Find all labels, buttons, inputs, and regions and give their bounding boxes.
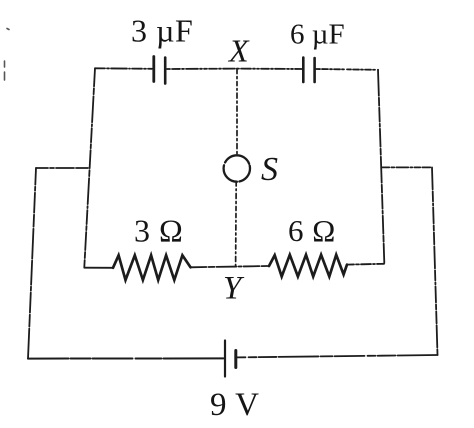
wire outer-right vertical [432,167,438,355]
wire switch down to node Y [235,182,238,266]
wire between resistors through node Y [191,266,270,267]
wire bottom left segment [28,357,224,359]
wire R2 to bottom-right inner corner [347,263,384,266]
battery tall plate [224,341,226,377]
svg-text:Y: Y [223,271,245,307]
wire top-left segment [95,67,152,70]
svg-text:9 V: 9 V [210,387,260,423]
svg-text:S: S [261,151,278,188]
wire C1 to node X [167,68,237,70]
wire outer-left vertical [28,168,36,359]
wire inner-bottom left stub [84,267,113,269]
svg-text:6 µF: 6 µF [290,19,345,51]
resistor R1 (3 ohm) [113,255,191,280]
wire bottom right segment [237,355,438,357]
wire inner-right vertical [378,70,384,263]
svg-text:6 Ω: 6 Ω [288,213,336,248]
svg-text:3 Ω: 3 Ω [134,213,183,249]
svg-text:X: X [227,33,250,69]
wire node X to C2 [237,68,302,70]
scan artifact marks left edge [5,29,10,81]
wire inner-left vertical [84,68,95,267]
wire left connector [36,167,90,169]
wire right connector [381,166,432,168]
battery short plate [234,351,237,368]
switch S circle [224,155,250,181]
resistor R2 (6 ohm) [269,255,347,277]
capacitor C2 right plate (6 uF) [313,58,316,82]
capacitor C2 left plate (6 uF) [302,58,305,83]
wire node X down to switch [236,69,238,155]
capacitor C1 left plate (3 uF) [152,57,155,82]
capacitor C1 right plate (3 uF) [164,58,167,84]
svg-text:3 µF: 3 µF [131,13,193,49]
wire C2 to top-right corner [316,68,378,71]
